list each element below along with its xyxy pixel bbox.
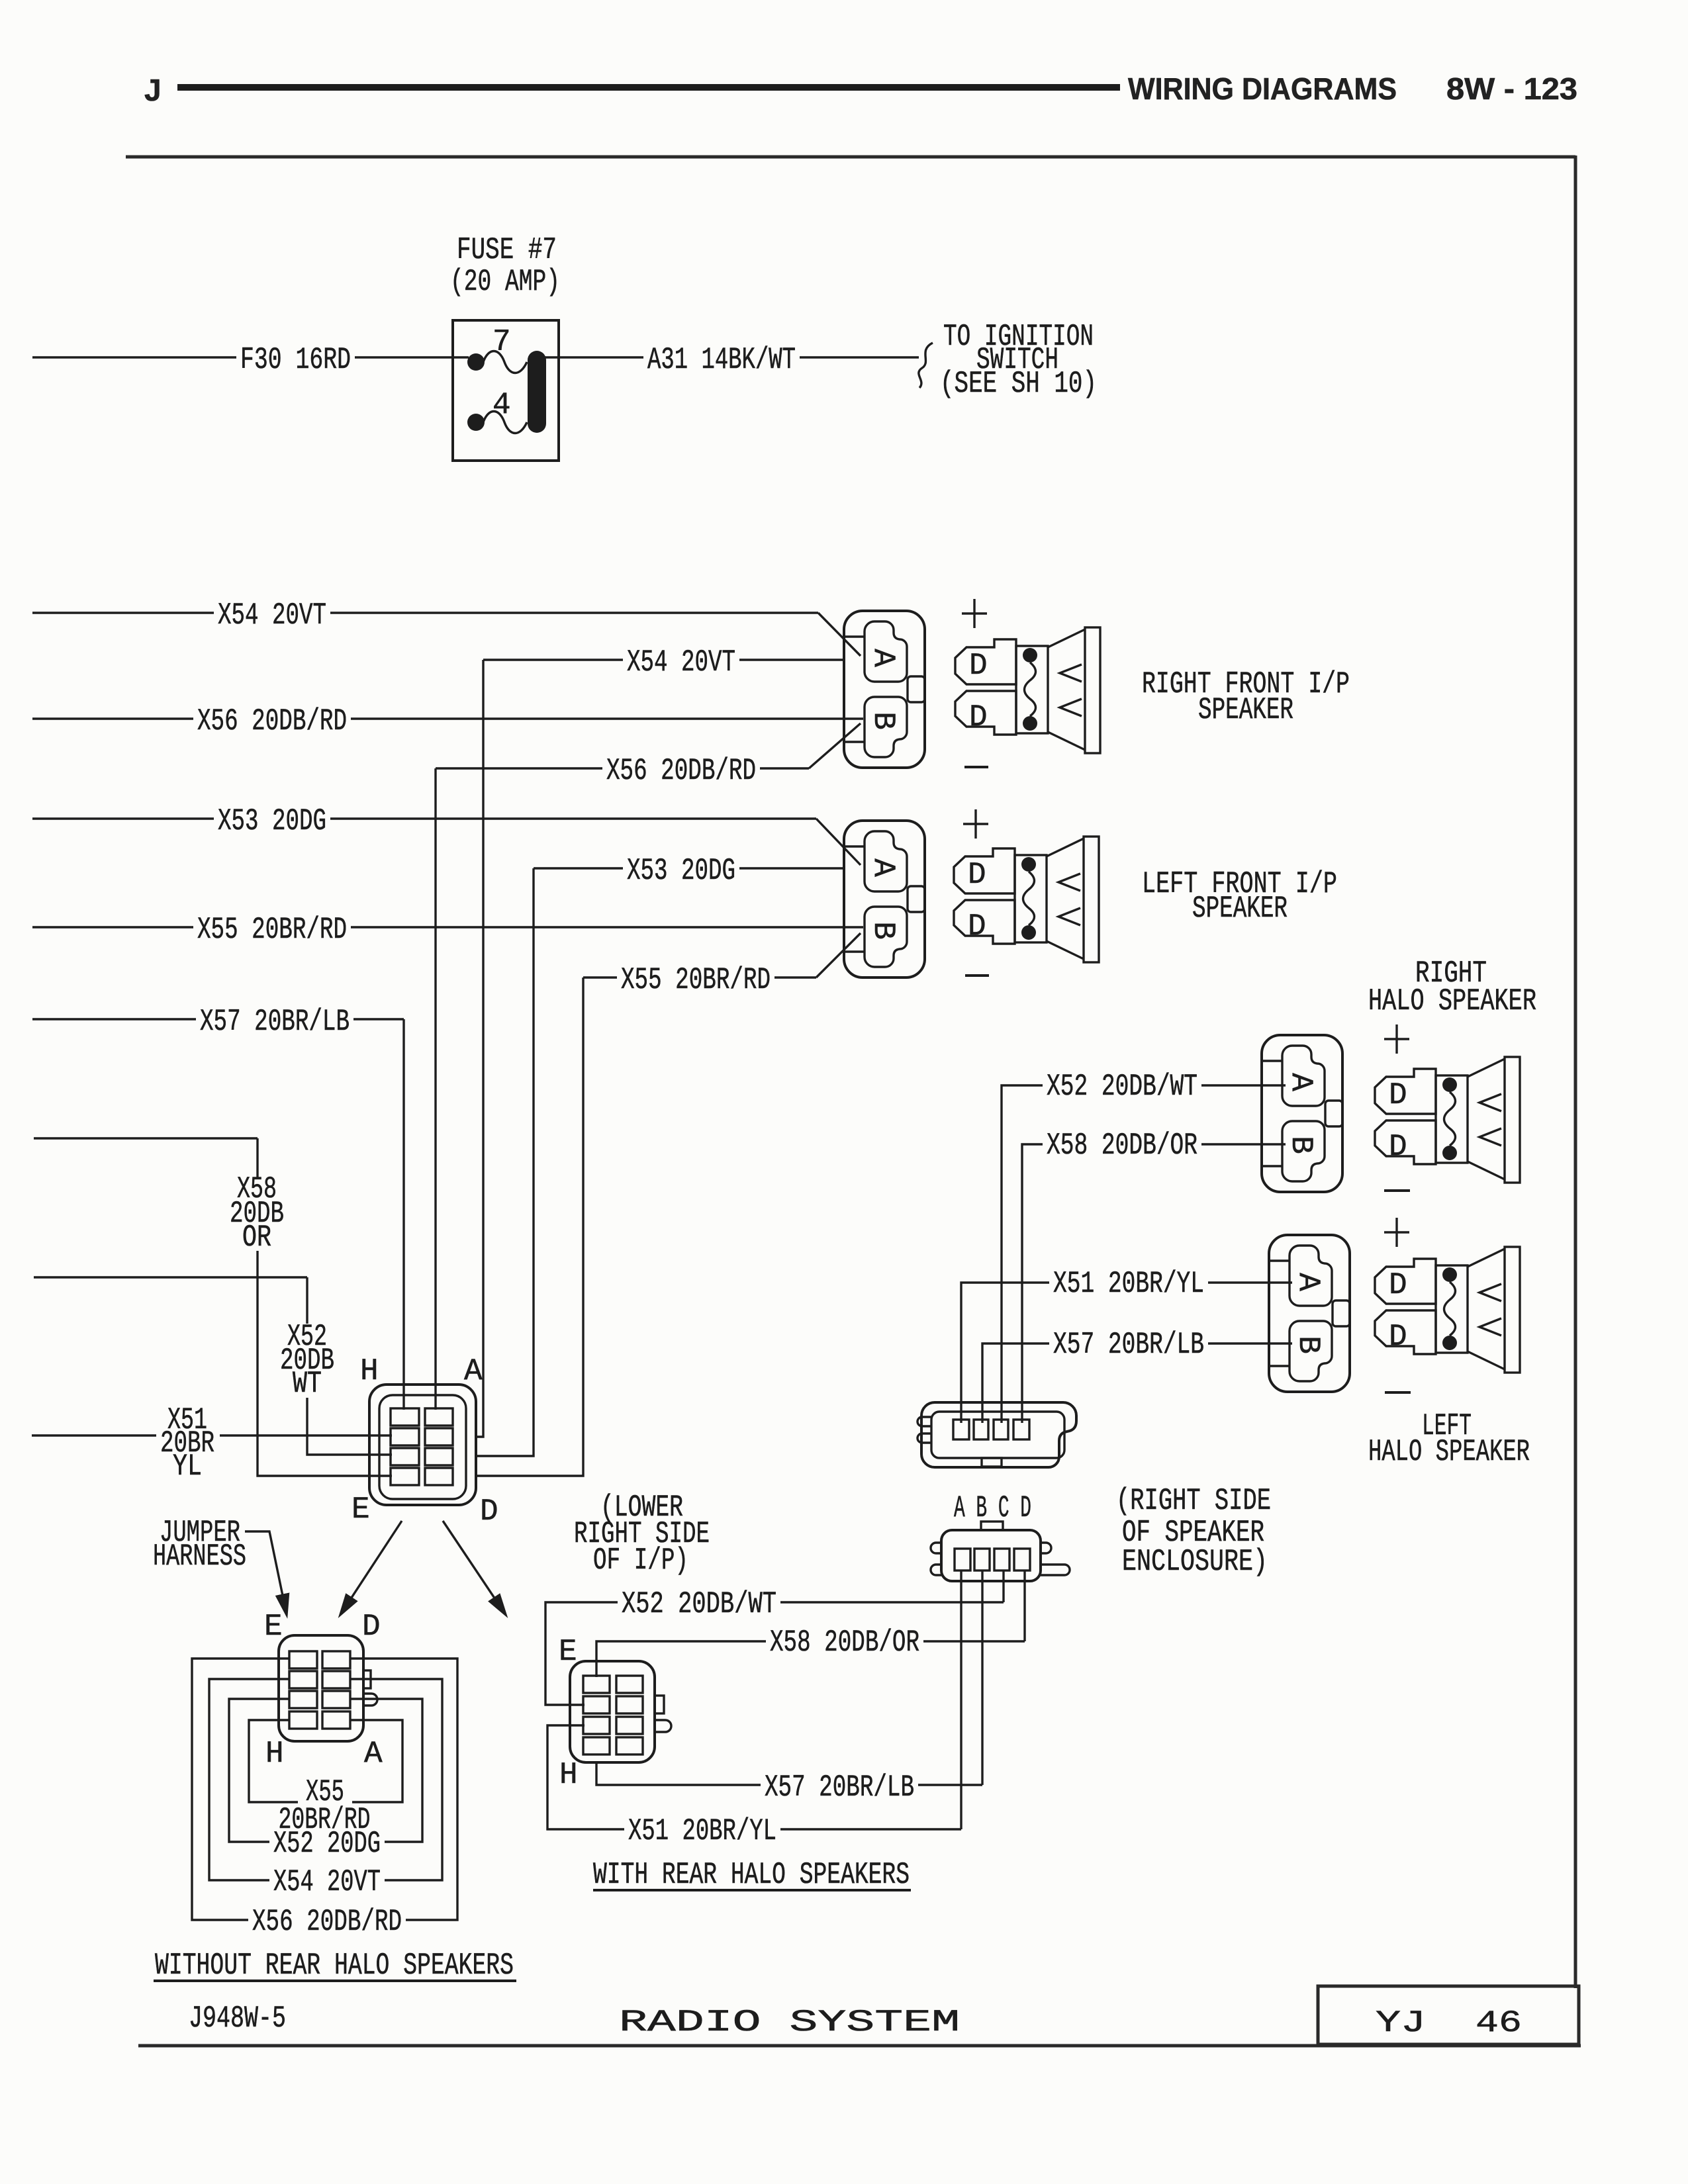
svg-text:X56 20DB/RD: X56 20DB/RD	[606, 754, 756, 788]
svg-text:ENCLOSURE): ENCLOSURE)	[1122, 1545, 1268, 1579]
wire X53 outer left segment	[32, 817, 214, 819]
jumper connector pin B cavity	[322, 1691, 350, 1708]
radio connector C1 pin A cavity	[425, 1408, 453, 1426]
svg-text:HALO SPEAKER: HALO SPEAKER	[1368, 984, 1536, 1019]
wire F30 right segment	[355, 356, 469, 358]
jumper leader line	[245, 1531, 287, 1615]
svg-text:A: A	[364, 1737, 383, 1771]
speaker right halo pigtail	[1375, 1057, 1520, 1183]
svg-text:YL: YL	[173, 1449, 202, 1484]
with-halo connector pin D cavity	[616, 1676, 643, 1693]
svg-text:X51 20BR/YL: X51 20BR/YL	[628, 1814, 776, 1848]
minus right front	[964, 766, 988, 768]
title block YJ 46 box	[1318, 1986, 1579, 2044]
svg-text:X53 20DG: X53 20DG	[218, 804, 326, 839]
with-halo connector pin A cavity	[616, 1737, 643, 1754]
fuse F7 terminal dot 7	[467, 353, 485, 371]
svg-text:X56 20DB/RD: X56 20DB/RD	[252, 1905, 402, 1939]
svg-text:E: E	[264, 1610, 283, 1644]
enclosure connector upper index tab	[982, 1458, 1002, 1467]
jumper connector pin A cavity	[322, 1711, 350, 1729]
with-halo connector pin C cavity	[616, 1696, 643, 1713]
wire X56 outer right segment	[351, 717, 863, 719]
enclosure connector upper pin D cavity	[1013, 1420, 1029, 1439]
wire X58 vertical lower and into pin E	[258, 1251, 392, 1476]
wire X56 vertical to connector pin A	[434, 768, 436, 1410]
frame bottom border	[138, 2044, 1581, 2048]
svg-text:X58 20DB/OR: X58 20DB/OR	[1047, 1128, 1197, 1163]
wire X58 with-halo left elbow	[596, 1641, 766, 1677]
wire X53 vertical to connector pin C	[476, 868, 534, 1456]
svg-text:HARNESS: HARNESS	[153, 1539, 246, 1574]
plus left halo	[1384, 1218, 1409, 1247]
svg-text:E: E	[352, 1492, 370, 1527]
wire X52 halo right segment	[1201, 1084, 1286, 1086]
svg-text:H: H	[360, 1354, 379, 1388]
svg-text:WT: WT	[293, 1367, 322, 1401]
wire X55 inner right segment	[774, 976, 816, 978]
jumper connector pin F cavity	[289, 1671, 317, 1688]
svg-text:YJ: YJ	[1376, 2006, 1426, 2040]
wire X58 with-halo right segment	[923, 1640, 1025, 1642]
svg-text:X54 20VT: X54 20VT	[627, 645, 735, 680]
wire X58 horizontal from left	[34, 1137, 258, 1139]
arrow to with-halo connector	[443, 1521, 506, 1615]
radio connector C1 outer shell	[369, 1385, 476, 1505]
wire X55 outer left segment	[32, 926, 193, 928]
svg-text:SPEAKER: SPEAKER	[1192, 891, 1288, 926]
enclosure connector upper shell	[921, 1402, 1076, 1467]
with-halo connector pin G cavity	[583, 1717, 610, 1734]
wire A31 right segment	[800, 356, 919, 358]
title underline without	[154, 1979, 516, 1982]
plus left front	[963, 809, 988, 839]
enclosure connector upper ear 2	[917, 1433, 931, 1443]
jumper loop X54 right	[350, 1679, 442, 1880]
wire X55 vertical to connector pin D	[476, 978, 583, 1476]
svg-text:A31 14BK/WT: A31 14BK/WT	[647, 343, 796, 377]
connector right halo speaker	[1262, 1035, 1342, 1192]
jumper connector pin D cavity	[322, 1651, 350, 1668]
wire X58 halo right segment	[1201, 1143, 1286, 1145]
jumper connector shell	[279, 1635, 363, 1741]
off-page squiggle to ignition switch	[919, 343, 933, 388]
svg-text:X53 20DG: X53 20DG	[627, 854, 735, 888]
svg-text:E: E	[559, 1635, 577, 1669]
arrow to jumper connector	[340, 1521, 402, 1615]
svg-text:X57 20BR/LB: X57 20BR/LB	[765, 1770, 914, 1805]
svg-text:OF I/P): OF I/P)	[593, 1543, 688, 1578]
speaker right front pigtail	[955, 627, 1100, 753]
jumper loop X55 right	[350, 1720, 402, 1802]
with-halo connector index tab	[655, 1696, 664, 1713]
wire X52 horizontal from left	[34, 1276, 307, 1278]
enclosure connector upper ear 1	[917, 1417, 931, 1426]
with-halo connector shell	[570, 1661, 655, 1762]
wire X51 right segment into pin G	[220, 1434, 392, 1436]
with-halo connector pin H cavity	[583, 1737, 610, 1754]
radio connector C1 pin H cavity	[391, 1408, 419, 1426]
svg-text:J: J	[144, 73, 162, 107]
harness connector lower ear top-left	[931, 1543, 941, 1553]
radio connector C1 pin G cavity	[391, 1428, 419, 1445]
minus right halo	[1384, 1189, 1410, 1192]
with-halo connector pin E cavity	[583, 1676, 610, 1693]
svg-text:X54 20VT: X54 20VT	[218, 598, 326, 633]
jumper connector pin E cavity	[289, 1651, 317, 1668]
svg-text:X58 20DB/OR: X58 20DB/OR	[770, 1625, 919, 1660]
svg-text:WITH REAR HALO SPEAKERS: WITH REAR HALO SPEAKERS	[593, 1858, 910, 1892]
with-halo connector pin F cavity	[583, 1696, 610, 1713]
jumper loop X55 left	[249, 1720, 298, 1802]
harness connector lower pin A cavity	[955, 1549, 970, 1570]
jumper connector pin C cavity	[322, 1671, 350, 1688]
svg-text:A: A	[464, 1354, 483, 1388]
minus left front	[965, 974, 989, 977]
wire X54 outer left segment	[32, 612, 214, 614]
svg-text:D: D	[480, 1494, 498, 1529]
jumper connector pin H cavity	[289, 1711, 317, 1729]
wire X54 inner left segment	[483, 659, 623, 660]
harness connector lower ear top-right	[1041, 1543, 1051, 1553]
svg-text:46: 46	[1476, 2006, 1522, 2040]
wire X53 inner right segment	[739, 867, 845, 869]
harness connector lower ear bottom-right	[1041, 1565, 1070, 1575]
svg-text:A B C D: A B C D	[954, 1491, 1031, 1525]
wire X51 left segment	[32, 1434, 156, 1436]
harness connector lower pin B cavity	[974, 1549, 990, 1570]
header rule	[177, 84, 1120, 91]
fuse F7 element wave 4	[483, 412, 527, 433]
jumper loop X52 left	[229, 1699, 289, 1842]
svg-text:WITHOUT REAR HALO SPEAKERS: WITHOUT REAR HALO SPEAKERS	[155, 1948, 514, 1983]
wire from lower pin B down	[981, 1570, 983, 1785]
wire X54 outer right segment	[330, 612, 818, 614]
wire X57 halo right segment	[1208, 1342, 1292, 1344]
svg-text:H: H	[559, 1758, 578, 1792]
wire X52 vertical lower and into pin F	[307, 1398, 392, 1455]
svg-text:X52 20DG: X52 20DG	[273, 1827, 381, 1861]
wire X52 with-halo left elbow	[545, 1602, 618, 1705]
wire X56 inner left segment	[436, 767, 602, 769]
radio connector C1 pin D cavity	[425, 1468, 453, 1485]
svg-text:F30 16RD: F30 16RD	[240, 343, 351, 377]
harness connector lower shell	[941, 1530, 1041, 1581]
svg-text:X57 20BR/LB: X57 20BR/LB	[200, 1005, 350, 1039]
wire X57 to vertical	[353, 1018, 404, 1020]
svg-text:7: 7	[492, 325, 511, 359]
radio connector C1 pin B cavity	[425, 1428, 453, 1445]
wire X57 with-halo right segment	[918, 1784, 982, 1786]
wire X58 vertical upper	[256, 1138, 258, 1177]
wire X57 vertical to connector pin H	[402, 1019, 404, 1410]
wire F30 left segment	[32, 356, 236, 358]
wire X54 vertical to connector pin B	[476, 660, 483, 1437]
wire X56 inner right segment	[760, 767, 809, 769]
wire X51 with-halo right segment	[780, 1828, 961, 1830]
wire X58 halo left elbow	[1022, 1144, 1043, 1423]
enclosure connector upper pin A cavity	[953, 1420, 969, 1439]
svg-text:FUSE #7: FUSE #7	[457, 233, 557, 267]
radio connector C1 pin E cavity	[391, 1468, 419, 1485]
wire X56 outer left segment	[32, 717, 193, 719]
plus right halo	[1384, 1024, 1409, 1054]
jumper connector index tab	[363, 1670, 371, 1688]
svg-text:X52 20DB/WT: X52 20DB/WT	[1047, 1069, 1197, 1104]
connector left halo speaker	[1269, 1235, 1350, 1392]
svg-text:X57 20BR/LB: X57 20BR/LB	[1053, 1328, 1204, 1362]
enclosure connector upper inner	[931, 1412, 1064, 1458]
wire X51 with-halo left elbow	[547, 1725, 624, 1829]
wire X51 halo right segment	[1208, 1281, 1292, 1283]
enclosure connector upper pin C cavity	[994, 1420, 1008, 1439]
minus left halo	[1385, 1391, 1411, 1394]
svg-text:H: H	[265, 1737, 284, 1771]
fuse F7 body	[453, 320, 559, 461]
connector right front speaker	[844, 611, 925, 768]
with-halo connector pin B cavity	[616, 1717, 643, 1734]
jumper loop X56 right	[350, 1659, 457, 1920]
with-halo connector pointer	[655, 1720, 671, 1732]
wire X52 halo left elbow	[1002, 1085, 1043, 1423]
title underline with	[593, 1889, 911, 1891]
svg-text:8W - 123: 8W - 123	[1446, 71, 1577, 106]
jumper loop X56 left	[192, 1659, 289, 1920]
wire from lower pin D down	[1023, 1570, 1025, 1641]
wire X53 outer right segment	[330, 817, 816, 819]
speaker left front pigtail	[954, 837, 1099, 962]
svg-text:J948W-5: J948W-5	[189, 2001, 286, 2036]
svg-text:X52 20DB/WT: X52 20DB/WT	[622, 1587, 776, 1621]
radio connector C1 pin F cavity	[391, 1448, 419, 1465]
frame right border	[1574, 156, 1577, 1988]
wire X55 outer right segment	[351, 926, 863, 928]
radio connector C1 pin C cavity	[425, 1448, 453, 1465]
svg-text:(20 AMP): (20 AMP)	[450, 265, 560, 299]
svg-text:(RIGHT SIDE: (RIGHT SIDE	[1116, 1484, 1271, 1518]
fuse F7 element wave 7	[483, 351, 527, 373]
wire A31 left segment	[544, 356, 643, 358]
svg-text:X56 20DB/RD: X56 20DB/RD	[197, 704, 347, 739]
wire from lower pin A down	[960, 1570, 962, 1829]
wire X56 diagonal into pin B	[809, 723, 861, 768]
enclosure connector upper pin B cavity	[974, 1420, 988, 1439]
wire X57 with-halo left elbow	[596, 1761, 761, 1785]
wire X52 vertical upper	[306, 1277, 308, 1324]
wire X55 inner left segment	[583, 976, 617, 978]
wire from lower pin C down	[1002, 1570, 1004, 1602]
speaker left halo pigtail	[1375, 1247, 1520, 1373]
svg-text:HALO SPEAKER: HALO SPEAKER	[1368, 1435, 1530, 1469]
jumper connector pin G cavity	[289, 1691, 317, 1708]
svg-text:X54 20VT: X54 20VT	[273, 1865, 381, 1899]
wire X53 diagonal into pin A	[816, 819, 861, 865]
harness connector lower pin D cavity	[1014, 1549, 1030, 1570]
svg-text:X55 20BR/RD: X55 20BR/RD	[621, 963, 771, 997]
svg-text:X55 20BR/RD: X55 20BR/RD	[197, 913, 347, 947]
svg-text:RADIO SYSTEM: RADIO SYSTEM	[619, 2005, 960, 2040]
plus right front	[962, 599, 987, 628]
svg-text:SPEAKER: SPEAKER	[1198, 693, 1293, 727]
harness connector lower ear bottom-left	[931, 1565, 941, 1575]
radio connector C1 inner shell	[379, 1395, 466, 1499]
wire X51 halo left elbow	[961, 1283, 1049, 1423]
wire X52 with-halo right segment	[780, 1601, 1004, 1603]
svg-text:D: D	[362, 1610, 381, 1644]
svg-text:OR: OR	[242, 1220, 271, 1255]
jumper connector pointer	[363, 1694, 377, 1706]
connector left front speaker	[844, 821, 925, 978]
wire X54 inner right segment	[739, 659, 845, 660]
wire X55 diagonal into pin B	[816, 933, 861, 978]
fuse F7 bus bar	[528, 351, 546, 433]
wire X57 left segment	[32, 1018, 196, 1020]
svg-text:X51 20BR/YL: X51 20BR/YL	[1053, 1267, 1204, 1301]
fuse F7 terminal dot 4	[467, 414, 485, 431]
wire X54 diagonal into pin A	[818, 613, 861, 656]
harness connector lower index tab	[981, 1522, 1003, 1530]
harness connector lower pin C cavity	[994, 1549, 1009, 1570]
jumper loop X54 left	[209, 1679, 289, 1880]
wire X53 inner left segment	[534, 867, 623, 869]
frame top border	[126, 156, 1575, 159]
svg-text:WIRING DIAGRAMS: WIRING DIAGRAMS	[1128, 71, 1397, 106]
svg-text:(SEE SH 10): (SEE SH 10)	[940, 367, 1097, 401]
wire X57 halo left elbow	[982, 1343, 1049, 1423]
jumper loop X52 right	[350, 1699, 422, 1842]
